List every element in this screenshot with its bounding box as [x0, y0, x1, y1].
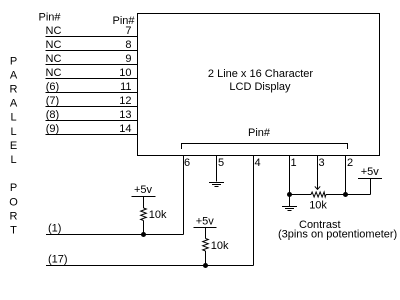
svg-text:A: A	[10, 98, 18, 110]
svg-text:(6): (6)	[46, 81, 59, 93]
svg-text:Pin#: Pin#	[39, 12, 62, 24]
svg-text:P: P	[10, 55, 17, 67]
svg-text:E: E	[10, 140, 17, 152]
svg-text:Pin#: Pin#	[248, 127, 271, 139]
svg-text:7: 7	[125, 25, 131, 37]
svg-text:9: 9	[125, 53, 131, 65]
svg-text:6: 6	[184, 157, 190, 169]
svg-text:(17): (17)	[48, 254, 68, 266]
svg-text:(1): (1)	[48, 223, 61, 235]
svg-text:10k: 10k	[211, 240, 229, 252]
svg-text:11: 11	[120, 81, 131, 93]
svg-text:NC: NC	[46, 67, 62, 79]
svg-text:Pin#: Pin#	[113, 15, 136, 27]
svg-text:(8): (8)	[46, 109, 59, 121]
svg-text:10k: 10k	[149, 209, 167, 221]
svg-text:10: 10	[119, 67, 131, 79]
svg-text:L: L	[10, 112, 16, 124]
svg-text:2: 2	[347, 157, 353, 169]
svg-text:4: 4	[255, 157, 261, 169]
svg-text:NC: NC	[46, 25, 62, 37]
svg-text:8: 8	[125, 39, 131, 51]
svg-text:A: A	[10, 69, 18, 81]
svg-text:P: P	[10, 182, 17, 194]
svg-text:10k: 10k	[309, 200, 327, 212]
svg-text:NC: NC	[46, 53, 62, 65]
svg-text:LCD Display: LCD Display	[229, 81, 291, 93]
svg-text:3: 3	[319, 157, 325, 169]
svg-text:+5v: +5v	[134, 184, 153, 196]
svg-text:14: 14	[119, 123, 131, 135]
svg-text:NC: NC	[46, 39, 62, 51]
svg-text:(7): (7)	[46, 95, 59, 107]
svg-text:R: R	[10, 84, 18, 96]
svg-text:2 Line x 16 Character: 2 Line x 16 Character	[208, 68, 314, 80]
svg-text:12: 12	[119, 95, 131, 107]
svg-text:T: T	[10, 225, 17, 237]
svg-text:+5v: +5v	[361, 166, 380, 178]
svg-text:R: R	[10, 210, 18, 222]
svg-text:5: 5	[218, 157, 224, 169]
svg-text:L: L	[10, 154, 16, 166]
svg-text:13: 13	[119, 109, 131, 121]
svg-text:L: L	[10, 126, 16, 138]
svg-text:O: O	[9, 196, 18, 208]
svg-text:1: 1	[291, 157, 297, 169]
svg-text:(3pins on potentiometer): (3pins on potentiometer)	[278, 229, 397, 241]
svg-text:(9): (9)	[46, 123, 59, 135]
svg-text:+5v: +5v	[196, 216, 215, 228]
